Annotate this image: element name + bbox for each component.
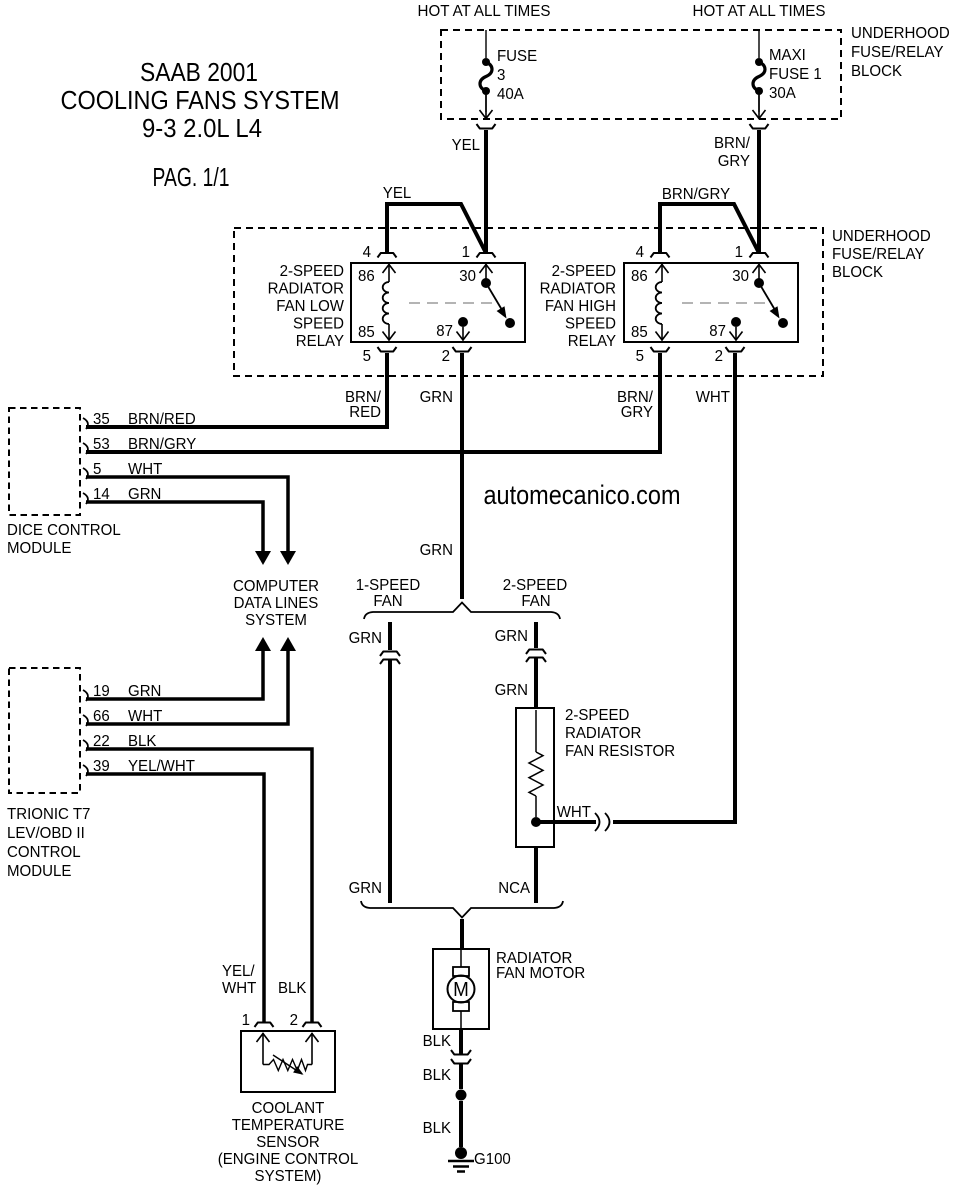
svg-text:GRN: GRN xyxy=(420,389,453,406)
svg-text:UNDERHOOD: UNDERHOOD xyxy=(851,25,950,42)
svg-text:FAN RESISTOR: FAN RESISTOR xyxy=(565,743,675,760)
svg-text:3: 3 xyxy=(497,67,505,84)
svg-text:35: 35 xyxy=(93,411,110,428)
svg-text:MAXI: MAXI xyxy=(769,47,806,64)
svg-text:YEL: YEL xyxy=(383,185,411,202)
svg-text:RADIATOR: RADIATOR xyxy=(540,281,616,298)
svg-text:BLK: BLK xyxy=(423,1120,452,1137)
svg-text:HOT AT ALL TIMES: HOT AT ALL TIMES xyxy=(693,3,826,20)
svg-text:TRIONIC T7: TRIONIC T7 xyxy=(7,806,90,823)
svg-text:FUSE/RELAY: FUSE/RELAY xyxy=(832,246,925,263)
svg-text:BRN/GRY: BRN/GRY xyxy=(128,436,197,453)
svg-text:BLK: BLK xyxy=(278,980,307,997)
svg-text:BLK: BLK xyxy=(423,1033,452,1050)
svg-text:PAG. 1/1: PAG. 1/1 xyxy=(153,162,230,192)
svg-text:86: 86 xyxy=(358,268,375,285)
svg-text:MODULE: MODULE xyxy=(7,540,71,557)
svg-text:YEL: YEL xyxy=(452,137,480,154)
svg-text:1-SPEED: 1-SPEED xyxy=(356,577,420,594)
svg-text:LEV/OBD II: LEV/OBD II xyxy=(7,825,85,842)
svg-text:CONTROL: CONTROL xyxy=(7,844,81,861)
svg-text:40A: 40A xyxy=(497,86,524,103)
svg-text:WHT: WHT xyxy=(222,980,257,997)
svg-text:2-SPEED: 2-SPEED xyxy=(280,263,344,280)
svg-text:UNDERHOOD: UNDERHOOD xyxy=(832,228,931,245)
svg-text:M: M xyxy=(453,979,469,1001)
svg-text:WHT: WHT xyxy=(557,804,592,821)
svg-text:COMPUTER: COMPUTER xyxy=(233,578,319,595)
svg-text:RADIATOR: RADIATOR xyxy=(268,281,344,298)
svg-text:5: 5 xyxy=(363,348,371,365)
svg-text:SENSOR: SENSOR xyxy=(256,1134,320,1151)
svg-text:BRN/: BRN/ xyxy=(714,135,751,152)
svg-text:2-SPEED: 2-SPEED xyxy=(503,577,567,594)
svg-text:TEMPERATURE: TEMPERATURE xyxy=(232,1117,345,1134)
svg-text:BLOCK: BLOCK xyxy=(851,63,902,80)
svg-text:2: 2 xyxy=(442,348,450,365)
svg-text:4: 4 xyxy=(363,244,371,261)
svg-text:BRN/RED: BRN/RED xyxy=(128,411,196,428)
svg-text:NCA: NCA xyxy=(498,880,530,897)
svg-text:1: 1 xyxy=(462,244,470,261)
svg-text:FAN LOW: FAN LOW xyxy=(276,298,345,315)
svg-text:SAAB 2001: SAAB 2001 xyxy=(140,57,258,87)
svg-text:COOLING FANS SYSTEM: COOLING FANS SYSTEM xyxy=(61,85,340,115)
svg-text:(ENGINE CONTROL: (ENGINE CONTROL xyxy=(218,1151,359,1168)
svg-text:30A: 30A xyxy=(769,85,796,102)
svg-text:2-SPEED: 2-SPEED xyxy=(552,263,616,280)
svg-text:GRN: GRN xyxy=(420,542,453,559)
svg-text:SPEED: SPEED xyxy=(565,316,616,333)
svg-text:COOLANT: COOLANT xyxy=(252,1100,325,1117)
svg-text:BRN/GRY: BRN/GRY xyxy=(662,186,731,203)
svg-text:SYSTEM): SYSTEM) xyxy=(255,1168,322,1185)
svg-text:9-3 2.0L L4: 9-3 2.0L L4 xyxy=(142,113,262,143)
svg-text:WHT: WHT xyxy=(696,389,731,406)
svg-text:RADIATOR: RADIATOR xyxy=(565,725,641,742)
svg-text:FAN HIGH: FAN HIGH xyxy=(545,298,616,315)
svg-text:RED: RED xyxy=(349,404,381,421)
svg-text:DATA LINES: DATA LINES xyxy=(234,595,319,612)
svg-text:GRN: GRN xyxy=(495,682,528,699)
svg-text:53: 53 xyxy=(93,436,110,453)
svg-text:1: 1 xyxy=(242,1012,250,1029)
svg-text:30: 30 xyxy=(459,268,476,285)
svg-text:automecanico.com: automecanico.com xyxy=(484,480,681,510)
svg-text:FAN: FAN xyxy=(373,593,402,610)
svg-text:87: 87 xyxy=(436,323,453,340)
svg-text:SYSTEM: SYSTEM xyxy=(245,612,307,629)
svg-text:GRN: GRN xyxy=(495,628,528,645)
svg-text:RELAY: RELAY xyxy=(568,333,617,350)
svg-text:GRY: GRY xyxy=(718,153,751,170)
svg-text:FUSE/RELAY: FUSE/RELAY xyxy=(851,44,944,61)
svg-text:85: 85 xyxy=(358,324,375,341)
svg-text:2: 2 xyxy=(290,1012,298,1029)
svg-text:HOT AT ALL TIMES: HOT AT ALL TIMES xyxy=(418,3,551,20)
svg-text:RELAY: RELAY xyxy=(296,333,345,350)
svg-text:BLK: BLK xyxy=(423,1067,452,1084)
svg-text:BLOCK: BLOCK xyxy=(832,264,883,281)
svg-text:FUSE: FUSE xyxy=(497,48,537,65)
svg-text:YEL/: YEL/ xyxy=(222,963,255,980)
svg-text:G100: G100 xyxy=(474,1151,511,1168)
svg-text:DICE CONTROL: DICE CONTROL xyxy=(7,522,121,539)
svg-text:2-SPEED: 2-SPEED xyxy=(565,707,629,724)
svg-text:GRY: GRY xyxy=(621,404,654,421)
svg-text:FAN: FAN xyxy=(521,593,550,610)
svg-text:SPEED: SPEED xyxy=(293,316,344,333)
svg-text:FAN MOTOR: FAN MOTOR xyxy=(496,965,585,982)
svg-text:GRN: GRN xyxy=(349,630,382,647)
svg-text:MODULE: MODULE xyxy=(7,863,71,880)
svg-text:FUSE 1: FUSE 1 xyxy=(769,66,822,83)
svg-text:GRN: GRN xyxy=(349,880,382,897)
